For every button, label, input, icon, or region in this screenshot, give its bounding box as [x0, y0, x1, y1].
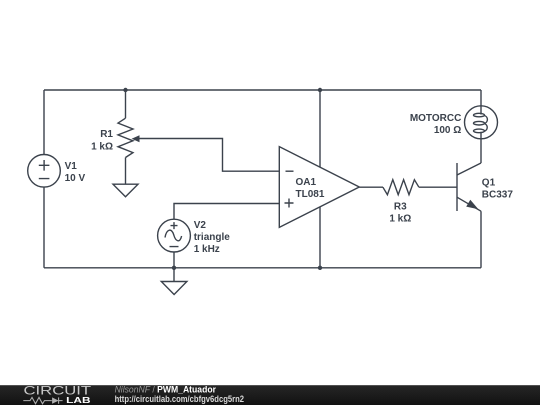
- wire bottom rail: [44, 267, 481, 269]
- node junction op-amp V+: [318, 88, 322, 92]
- svg-text:BC337: BC337: [482, 190, 514, 201]
- svg-text:MOTORCC: MOTORCC: [410, 113, 461, 124]
- R1 wiper arrow: [139, 139, 280, 172]
- svg-text:LAB: LAB: [66, 396, 91, 405]
- wire R1 bottom lead: [125, 158, 127, 185]
- svg-text:10 V: 10 V: [65, 173, 86, 184]
- wire V2 bottom lead: [173, 252, 175, 268]
- wire R3 to base: [419, 186, 457, 188]
- node junction op-amp V-: [318, 266, 322, 270]
- wire op-amp output: [359, 186, 383, 188]
- wire top rail: [44, 89, 481, 91]
- svg-text:R3: R3: [394, 202, 407, 213]
- wire V2 ground lead: [173, 268, 175, 282]
- resistor R1 potentiometer body: [118, 118, 133, 157]
- wire V2 to op-amp plus input: [174, 204, 279, 220]
- svg-text:TL081: TL081: [296, 189, 325, 200]
- voltage source V2: [158, 219, 191, 252]
- resistor R3: [383, 180, 419, 195]
- node junction top R1: [123, 88, 127, 92]
- svg-text:OA1: OA1: [296, 177, 317, 188]
- motor MOTORCC: [465, 106, 498, 139]
- svg-text:100 Ω: 100 Ω: [434, 125, 461, 136]
- wire V1 bottom lead: [43, 187, 45, 268]
- svg-text:1 kHz: 1 kHz: [194, 244, 220, 255]
- node junction V2 bottom: [172, 266, 176, 270]
- voltage source V1: [28, 155, 61, 188]
- logo resistor-diode glyph: [23, 397, 62, 403]
- wire op-amp V+: [319, 90, 321, 167]
- wire op-amp V-: [319, 207, 321, 268]
- svg-text:http://circuitlab.com/cbfgv6dc: http://circuitlab.com/cbfgv6dcg5rn2: [115, 393, 245, 404]
- svg-text:R1: R1: [100, 129, 113, 140]
- wire motor top lead: [480, 90, 482, 115]
- footer bar: [0, 385, 540, 405]
- svg-text:1 kΩ: 1 kΩ: [389, 214, 411, 225]
- wire collector: [480, 132, 482, 163]
- wire R1 top lead: [125, 90, 127, 118]
- wire emitter: [480, 211, 482, 268]
- svg-text:triangle: triangle: [194, 232, 231, 243]
- svg-text:1 kΩ: 1 kΩ: [91, 141, 113, 152]
- svg-text:Q1: Q1: [482, 178, 496, 189]
- svg-text:V1: V1: [65, 161, 78, 172]
- transistor Q1: [456, 163, 458, 211]
- V2 waveform glyph: [165, 230, 182, 241]
- ground under R1: [113, 184, 138, 197]
- wire V1 top lead: [43, 90, 45, 155]
- ground under V2: [161, 282, 187, 295]
- svg-text:V2: V2: [194, 220, 207, 231]
- op-amp OA1: [279, 147, 359, 228]
